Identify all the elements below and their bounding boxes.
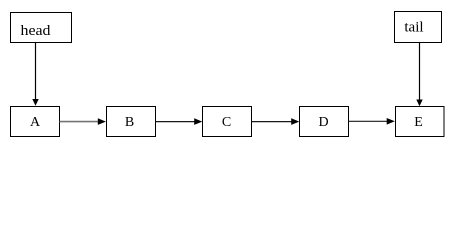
wire tail to E (down arrow) — [416, 43, 422, 107]
svg-text:D: D — [318, 115, 328, 130]
svg-text:A: A — [30, 115, 41, 130]
node head — [11, 13, 72, 43]
node A — [11, 107, 60, 137]
svg-text:C: C — [222, 115, 231, 130]
node C — [203, 107, 252, 137]
wire D to E (right arrow) — [349, 118, 395, 125]
node D — [300, 107, 349, 137]
node tail — [395, 12, 442, 43]
node B — [107, 107, 156, 137]
wire A to B (right arrow) — [60, 118, 106, 125]
node E — [396, 107, 445, 137]
svg-text:tail: tail — [404, 20, 423, 36]
wire C to D (right arrow) — [252, 118, 300, 125]
svg-text:B: B — [125, 115, 134, 130]
wire B to C (right arrow) — [156, 118, 203, 125]
svg-text:head: head — [21, 23, 52, 39]
svg-text:E: E — [414, 115, 423, 130]
wire head to A (down arrow) — [32, 43, 38, 106]
